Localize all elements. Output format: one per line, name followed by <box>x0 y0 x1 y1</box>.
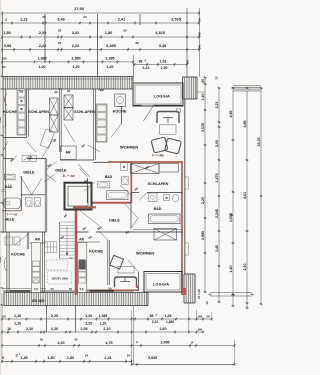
svg-text:1,26: 1,26 <box>165 314 172 318</box>
svg-text:1,80: 1,80 <box>67 356 74 360</box>
svg-text:(40: (40 <box>198 315 203 319</box>
svg-text:8: 8 <box>230 214 234 216</box>
svg-text:DIELE: DIELE <box>23 171 35 175</box>
svg-text:2,455: 2,455 <box>161 341 170 345</box>
svg-text:1,385: 1,385 <box>37 56 46 60</box>
svg-text:24: 24 <box>85 354 89 358</box>
svg-text:25: 25 <box>123 29 127 33</box>
svg-text:5,0: 5,0 <box>34 287 38 291</box>
svg-text:20 1,50: 20 1,50 <box>197 289 201 299</box>
svg-text:2,41: 2,41 <box>104 356 111 360</box>
svg-text:1,20: 1,20 <box>72 65 79 69</box>
svg-text:2: 2 <box>5 18 7 22</box>
svg-text:KÜCHE: KÜCHE <box>113 109 127 114</box>
svg-text:1,50: 1,50 <box>47 356 54 360</box>
svg-text:3,635: 3,635 <box>201 123 205 132</box>
svg-text:AR: AR <box>79 237 84 241</box>
svg-text:LOGGIA: LOGGIA <box>154 94 171 99</box>
svg-text:34: 34 <box>198 18 202 22</box>
svg-text:1,40: 1,40 <box>0 257 2 263</box>
svg-text:3,39: 3,39 <box>159 43 167 48</box>
svg-text:25: 25 <box>74 338 78 342</box>
svg-text:AR: AR <box>66 151 71 155</box>
svg-text:26: 26 <box>42 15 46 19</box>
svg-text:1,80: 1,80 <box>3 30 11 35</box>
svg-text:30: 30 <box>54 90 58 94</box>
svg-text:3,46: 3,46 <box>57 17 65 22</box>
svg-text:1,385: 1,385 <box>71 56 80 60</box>
svg-text:1,40: 1,40 <box>0 117 2 123</box>
svg-text:2,21: 2,21 <box>20 17 28 22</box>
svg-text:1,40: 1,40 <box>229 266 233 273</box>
svg-text:25: 25 <box>40 338 44 342</box>
svg-text:4,85: 4,85 <box>229 111 233 118</box>
svg-text:BAD: BAD <box>154 207 162 211</box>
svg-text:2,60: 2,60 <box>160 327 167 331</box>
svg-text:1,45: 1,45 <box>215 245 219 252</box>
svg-text:2,22: 2,22 <box>72 43 80 48</box>
svg-text:24: 24 <box>83 15 87 19</box>
svg-text:2,20: 2,20 <box>51 314 58 318</box>
svg-text:3,535: 3,535 <box>148 356 157 360</box>
svg-text:1,20: 1,20 <box>106 65 113 69</box>
svg-text:15,34: 15,34 <box>257 138 261 147</box>
svg-text:SCHLAFEN: SCHLAFEN <box>74 110 95 114</box>
svg-text:KÜCHE: KÜCHE <box>3 109 17 114</box>
svg-text:1,20: 1,20 <box>38 65 45 69</box>
svg-text:2,22: 2,22 <box>39 30 47 35</box>
svg-text:1,51: 1,51 <box>160 60 167 64</box>
svg-text:88: 88 <box>139 60 143 64</box>
svg-text:185: 185 <box>1 57 6 61</box>
svg-text:20: 20 <box>2 315 6 319</box>
svg-text:4,85: 4,85 <box>243 121 247 128</box>
svg-text:BAD: BAD <box>105 175 113 179</box>
svg-text:2,41: 2,41 <box>118 17 126 22</box>
svg-text:1,26: 1,26 <box>85 314 92 318</box>
svg-text:2,495: 2,495 <box>106 43 117 48</box>
svg-text:1,385: 1,385 <box>99 314 108 318</box>
svg-text:17,93: 17,93 <box>74 6 85 11</box>
svg-text:2,10: 2,10 <box>103 327 110 331</box>
svg-text:1,385: 1,385 <box>166 320 174 324</box>
svg-text:50: 50 <box>69 287 72 291</box>
svg-text:2,00: 2,00 <box>215 140 219 147</box>
svg-text:5,0: 5,0 <box>80 287 84 291</box>
svg-text:20: 20 <box>206 315 210 319</box>
svg-text:20: 20 <box>201 79 205 83</box>
svg-text:WOHNEN: WOHNEN <box>120 145 138 150</box>
svg-text:WD 8|00: WD 8|00 <box>32 299 45 303</box>
svg-text:40: 40 <box>67 89 71 93</box>
svg-text:WOHNEN: WOHNEN <box>136 251 154 256</box>
svg-text:1,45: 1,45 <box>20 356 27 360</box>
svg-text:3,535: 3,535 <box>171 17 182 22</box>
svg-text:KÜCHE: KÜCHE <box>89 249 103 254</box>
svg-text:4,325: 4,325 <box>155 30 166 35</box>
svg-text:SCHLAFEN: SCHLAFEN <box>28 110 49 114</box>
svg-text:(40: (40 <box>186 59 190 64</box>
svg-text:4,75: 4,75 <box>105 341 112 345</box>
svg-text:F-⁵⁰-AB: F-⁵⁰-AB <box>152 153 164 157</box>
svg-text:|DU/FL 600|: |DU/FL 600| <box>52 277 67 281</box>
svg-text:2,20: 2,20 <box>201 197 205 204</box>
svg-text:20: 20 <box>215 76 219 80</box>
svg-text:2,20: 2,20 <box>51 327 58 331</box>
svg-text:2,12: 2,12 <box>143 66 150 70</box>
svg-text:5: 5 <box>2 356 4 360</box>
svg-text:50: 50 <box>109 287 112 291</box>
svg-text:24: 24 <box>127 354 131 358</box>
svg-text:14: 14 <box>205 301 209 305</box>
svg-text:1,475: 1,475 <box>215 174 219 183</box>
svg-text:3,21: 3,21 <box>215 102 219 109</box>
svg-text:SCHLAFEN: SCHLAFEN <box>148 182 169 186</box>
svg-text:1,385: 1,385 <box>105 56 114 60</box>
svg-text:(40: (40 <box>198 327 203 331</box>
svg-text:1,80: 1,80 <box>105 30 113 35</box>
svg-text:26: 26 <box>135 41 139 45</box>
svg-text:1,20: 1,20 <box>100 322 107 326</box>
svg-text:#: # <box>136 341 138 345</box>
svg-text:4,61: 4,61 <box>243 192 247 199</box>
svg-text:1,60: 1,60 <box>243 264 247 271</box>
svg-text:70|ø: 70|ø <box>98 88 104 92</box>
svg-text:(40: (40 <box>198 32 202 37</box>
svg-text:LOGGIA: LOGGIA <box>153 283 169 287</box>
svg-text:3!-⁹⁶-4ø: 3!-⁹⁶-4ø <box>62 174 74 178</box>
svg-text:2,985: 2,985 <box>201 231 205 240</box>
svg-text:1,26: 1,26 <box>14 314 21 318</box>
svg-text:25: 25 <box>58 29 62 33</box>
svg-text:25: 25 <box>58 41 62 45</box>
svg-text:16: 16 <box>7 327 11 331</box>
svg-text:2,20: 2,20 <box>57 341 64 345</box>
svg-text:DIELE: DIELE <box>55 169 67 173</box>
svg-text:1,50: 1,50 <box>161 66 168 70</box>
svg-text:4,95: 4,95 <box>4 43 12 48</box>
svg-text:1,20: 1,20 <box>85 322 92 326</box>
svg-text:20: 20 <box>2 65 6 69</box>
svg-text:2,12: 2,12 <box>152 320 159 324</box>
svg-text:F-⁵⁰-4B: F-⁵⁰-4B <box>7 212 18 216</box>
svg-text:KÜCHE: KÜCHE <box>11 252 25 257</box>
svg-text:BAD: BAD <box>5 185 13 189</box>
svg-text:2,10: 2,10 <box>26 327 33 331</box>
svg-text:7|ø: 7|ø <box>19 90 23 94</box>
svg-text:2,05: 2,05 <box>80 327 87 331</box>
svg-text:HELE: HELE <box>5 217 15 221</box>
svg-text:1,20: 1,20 <box>14 322 21 326</box>
svg-text:DIELE: DIELE <box>109 219 120 223</box>
svg-text:|4: |4 <box>191 341 194 345</box>
svg-text:50: 50 <box>51 287 54 291</box>
svg-text:88: 88 <box>150 314 154 318</box>
svg-text:2,245: 2,245 <box>215 209 219 218</box>
svg-text:1,40: 1,40 <box>201 94 205 101</box>
svg-text:2,22: 2,22 <box>72 30 80 35</box>
svg-text:(40: (40 <box>198 44 202 49</box>
svg-text:2,22: 2,22 <box>39 43 47 48</box>
svg-text:AR: AR <box>35 238 40 242</box>
